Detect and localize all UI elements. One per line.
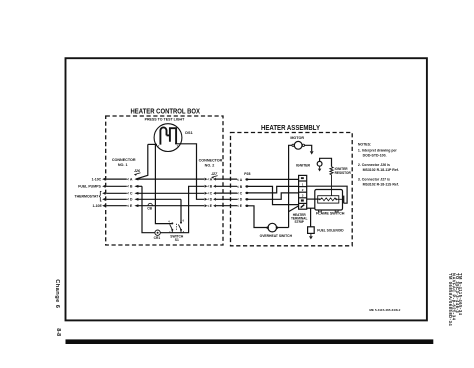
connector J26 pin arrowheads (left edge) [102, 178, 105, 208]
external label 1-10E [92, 204, 102, 208]
connector J27 pin A (conn2 right edge) [205, 178, 238, 182]
wire switch S1 bottom stubs [172, 230, 181, 233]
connector P28 pin D [237, 198, 248, 202]
svg-text:NOTES:: NOTES: [358, 142, 371, 146]
svg-text:<: < [237, 204, 239, 208]
svg-text:PRESS TO TEST LIGHT: PRESS TO TEST LIGHT [145, 117, 185, 122]
svg-text:FUEL SOLENOID: FUEL SOLENOID [317, 228, 344, 232]
ground arrow (motor) [310, 151, 314, 154]
connector P28 pin B [237, 185, 248, 189]
svg-text:B: B [240, 185, 243, 189]
svg-text:HEATER CONTROL BOX: HEATER CONTROL BOX [131, 107, 201, 116]
svg-text:<: < [127, 185, 129, 189]
circuit breaker CB symbol on row E [147, 203, 152, 210]
wire row B left segment to CR1 branch [136, 185, 142, 187]
flame switch S2 body [315, 190, 344, 212]
svg-text:2. Connector J26 is: 2. Connector J26 is [358, 163, 390, 167]
page number 8-8 [55, 328, 61, 336]
wire row D left segment to switch S1 [136, 198, 181, 200]
svg-text:6: 6 [183, 220, 185, 223]
overheat switch S3 [266, 223, 278, 232]
svg-text:MOTOR: MOTOR [290, 136, 304, 140]
wire lamp left lead to vertical bus [148, 143, 157, 145]
connector no.1 pin B [106, 185, 138, 189]
svg-text:E: E [210, 204, 213, 208]
igniter plug [317, 161, 322, 166]
svg-text:CR1: CR1 [154, 236, 161, 240]
svg-text:<: < [237, 178, 239, 182]
svg-text:1. Interpret drawing per: 1. Interpret drawing per [358, 148, 398, 152]
svg-text:IGNITER: IGNITER [296, 163, 311, 167]
heater terminal strip TB1 [299, 175, 307, 209]
label DS1 [185, 131, 192, 135]
wire overheat switch to motor bus [276, 227, 288, 229]
wire P28 D to terminal strip 3 [248, 193, 299, 199]
svg-text:A: A [130, 178, 133, 182]
switch S1 [168, 220, 185, 235]
svg-text:OVERHEAT SWITCH: OVERHEAT SWITCH [260, 234, 293, 238]
svg-text:CONNECTOR: CONNECTOR [199, 159, 223, 163]
label CONNECTOR NO. 1 [112, 158, 136, 167]
external label FUEL PUMPS [78, 185, 101, 189]
label FLAME SWITCH [316, 211, 345, 215]
svg-text:MS3102 R-18-11P Ref.: MS3102 R-18-11P Ref. [363, 168, 399, 172]
lamp DS1 filament symbol [160, 127, 176, 144]
svg-text:D: D [130, 198, 133, 202]
label PRESS TO TEST LIGHT [145, 117, 185, 122]
title HEATER CONTROL BOX [131, 107, 201, 116]
svg-text:CB: CB [147, 206, 152, 210]
wire motor branch to terminal strip 6 (diagonal) [289, 206, 299, 212]
connector P28 pin C [237, 191, 248, 195]
margin TM numbers [448, 273, 463, 326]
svg-text:MS3102 R-18-11S Ref.: MS3102 R-18-11S Ref. [363, 183, 399, 187]
wire terminal strip bottom to fuel solenoid [307, 208, 315, 227]
external label THERMOSTAT with bracket [75, 191, 102, 201]
label SWITCH S1 [170, 234, 184, 242]
svg-text:A: A [240, 178, 243, 182]
svg-text:1-10E: 1-10E [92, 204, 102, 208]
svg-text:<: < [237, 191, 239, 195]
svg-text:RESISTOR: RESISTOR [335, 171, 352, 175]
wire P28 B to terminal strip 6 [248, 186, 299, 204]
wire motor right to ground [305, 145, 312, 151]
svg-text:3: 3 [302, 194, 304, 198]
wire motor left down to overheat switch [289, 145, 292, 227]
svg-text:2: 2 [302, 188, 304, 192]
wire terminal strip 4 to flame switch resistor [307, 198, 319, 200]
label IGNITER RESISTOR [335, 167, 352, 175]
svg-text:<: < [237, 185, 239, 189]
notes block [358, 142, 399, 186]
label MOTOR [290, 136, 304, 140]
svg-text:DOD-STD-100.: DOD-STD-100. [363, 154, 387, 158]
bottom rule bar [66, 339, 434, 344]
svg-text:E: E [130, 204, 133, 208]
svg-text:C: C [240, 191, 243, 195]
connector J27 pin B [205, 185, 238, 189]
label CONNECTOR NO. 2 [199, 159, 223, 168]
svg-text:C: C [130, 192, 133, 196]
svg-text:DS1: DS1 [185, 131, 192, 135]
wire row C conn1 to conn2 [136, 192, 204, 194]
fuel solenoid L1 [308, 227, 315, 240]
svg-text:CONNECTOR: CONNECTOR [112, 158, 136, 162]
svg-text:<: < [127, 198, 129, 202]
svg-text:<: < [127, 178, 129, 182]
relay CR1 [154, 230, 161, 240]
svg-text:HEATER ASSEMBLY: HEATER ASSEMBLY [261, 123, 320, 132]
connector P28 pin E [237, 204, 248, 208]
title HEATER ASSEMBLY [261, 123, 320, 132]
lamp DS1 terminal tick marks [158, 146, 179, 147]
svg-text:THERMOSTAT: THERMOSTAT [75, 195, 100, 199]
label FUEL SOLENOID [317, 228, 344, 232]
wire P28 C to terminal strip 2 [248, 186, 299, 193]
svg-text:Change 6: Change 6 [54, 279, 60, 308]
connector J26 designator arrow [134, 169, 141, 176]
wire igniter to resistor [320, 158, 332, 166]
svg-text:B: B [130, 185, 133, 189]
heater assembly enclosure (dashed) [231, 133, 353, 246]
connector J27 pin E [205, 204, 238, 208]
ground arrow (igniter) [318, 166, 321, 171]
svg-text:D: D [210, 198, 213, 202]
svg-text:<: < [127, 204, 129, 208]
page frame [66, 58, 427, 320]
svg-text:FLAME SWITCH: FLAME SWITCH [316, 211, 345, 215]
svg-text:<: < [237, 198, 239, 202]
svg-text:4: 4 [168, 220, 170, 223]
wire lamp right lead to pin D conn2 [175, 144, 204, 200]
svg-text:NO. 2: NO. 2 [205, 164, 215, 168]
wire lamp bus down to switch S1 top-left [155, 144, 171, 223]
wire terminal strip 2 to flame switch right bar [307, 186, 347, 203]
svg-text:P28: P28 [244, 172, 250, 176]
svg-text:STRIP: STRIP [295, 220, 305, 224]
margin text Change 6 [54, 279, 60, 308]
svg-text:A: A [210, 178, 213, 182]
svg-text:E: E [240, 204, 243, 208]
connector P28 pin A [237, 178, 248, 182]
wire row D down to switch S1 top right [180, 199, 182, 222]
svg-text:TM 06858A/06858D-34: TM 06858A/06858D-34 [448, 273, 453, 326]
svg-text:8-8: 8-8 [55, 328, 61, 336]
connector J27 designator arrow [211, 172, 218, 179]
connector no.1 pin D [106, 198, 138, 202]
connector no.1 pin C [106, 192, 138, 196]
wire row E conn1 to conn2 [136, 205, 204, 207]
label IGNITER [296, 163, 311, 167]
svg-text:FUEL PUMPS: FUEL PUMPS [78, 185, 101, 189]
heater control box enclosure (dashed) [106, 116, 223, 245]
svg-text:NO. 1: NO. 1 [118, 163, 128, 167]
connector no.1 pin A [106, 178, 138, 182]
wire P28 E to overheat switch [248, 206, 267, 228]
svg-text:S1: S1 [175, 238, 179, 242]
svg-text:ME 5-4115-465-34/8-2: ME 5-4115-465-34/8-2 [369, 308, 400, 312]
wire row B vertical branch down to relay CR1 [142, 186, 155, 232]
svg-text:J26: J26 [134, 169, 141, 173]
wire P28 A to terminal strip 1 [248, 178, 299, 180]
flame switch heater element (zigzag) [319, 198, 344, 201]
svg-text:1-10C: 1-10C [92, 177, 102, 181]
svg-text:3. Connector J27 is: 3. Connector J27 is [358, 177, 390, 181]
svg-text:D: D [240, 198, 243, 202]
svg-text:1: 1 [302, 182, 304, 186]
connector P28 designator [244, 172, 250, 176]
indicator lamp DS1 circle [154, 124, 182, 152]
igniter resistor R1 (zigzag) [330, 167, 333, 196]
motor B1 [292, 141, 305, 149]
external label 1-10C [92, 177, 102, 181]
wire lamp left to pin A (vertical + diagonal) [136, 144, 148, 179]
connector J27 pin C [205, 192, 238, 196]
wire row A conn1 to conn2 [136, 178, 204, 180]
connector J27 pin D [205, 198, 238, 202]
svg-text:C: C [210, 192, 213, 196]
connector no.1 pin E [106, 204, 138, 208]
label OVERHEAT SWITCH [260, 234, 293, 238]
svg-text:<: < [127, 192, 129, 196]
figure number ME 5-4115-465-34/8-2 [369, 308, 400, 312]
svg-text:B: B [210, 185, 213, 189]
label HEATER TERMINAL STRIP [291, 213, 308, 224]
wire CR1 to switch S1 bottom and pin B conn2 [160, 186, 204, 232]
